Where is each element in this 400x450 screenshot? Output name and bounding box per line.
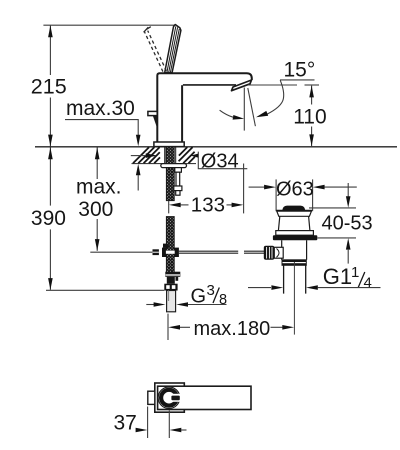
faucet body right edge under spout	[181, 85, 183, 142]
svg-text:G1: G1	[323, 264, 352, 289]
bottom view thick ring	[161, 390, 177, 406]
svg-text:300: 300	[78, 198, 113, 221]
aerator nozzle	[232, 80, 252, 91]
counter top line	[35, 146, 397, 148]
connection pipe G3/8	[167, 291, 176, 312]
counter bottom line	[132, 163, 197, 165]
bottom view spout rectangle	[158, 386, 251, 409]
mounting washer	[161, 164, 187, 168]
drain ledge	[276, 231, 314, 236]
dim 215 top reference line	[43, 24, 177, 26]
hose segment B upper	[166, 217, 174, 272]
dim 215 arrow up	[48, 25, 53, 37]
pop-up horizontal rod	[179, 251, 265, 253]
hose end fitting	[165, 272, 180, 277]
svg-text:110: 110	[293, 106, 326, 129]
dim max.300 arrow up	[95, 147, 100, 159]
dim max.30 lower shaft	[137, 175, 139, 191]
handle lever dashed alt position	[144, 31, 166, 72]
swing arc left arrowhead	[233, 115, 245, 120]
dim G3/8 left arrow	[146, 304, 154, 306]
drain rod connector	[274, 247, 283, 258]
spout underside	[183, 84, 236, 86]
drain tailpipe	[284, 265, 306, 293]
svg-text:1: 1	[351, 264, 359, 281]
dim O63 left arrow	[249, 186, 265, 188]
svg-text:215: 215	[31, 75, 67, 99]
15 deg underline	[280, 79, 315, 81]
bottom view body square	[155, 383, 185, 412]
dim max.30 arrow up (below counter)	[136, 164, 141, 175]
stream line vertical	[243, 88, 245, 131]
hose nut G3/8	[164, 284, 177, 291]
drain upper body	[278, 216, 310, 230]
dim max.30 underline + drop line	[65, 120, 138, 136]
dim O63 right arrow	[313, 185, 325, 190]
dim 390 arrow down	[48, 278, 53, 290]
drain coupling	[282, 260, 306, 266]
dome level reference line	[309, 207, 356, 209]
dim G1 1/4 right arrow + underline	[306, 285, 318, 290]
drain centerline	[293, 262, 295, 335]
dim 110 arrow down	[309, 134, 314, 146]
dim max.300 vertical line	[96, 147, 98, 250]
dim 215 arrow down	[48, 135, 53, 147]
svg-text:37: 37	[114, 412, 137, 435]
drain plug dome	[282, 206, 305, 210]
mounting bolt stud	[176, 172, 180, 186]
counter hatch left	[133, 147, 160, 163]
dim max.30 arrow down	[136, 135, 141, 146]
G3/8 underline	[188, 304, 227, 306]
pop-up rod left reference line	[90, 251, 153, 253]
dim 40-53 arrow up	[346, 238, 351, 250]
dim 390 arrow up	[48, 147, 53, 159]
pop-up rod slot through hose	[166, 251, 175, 254]
O34 left arrow	[131, 155, 147, 157]
stream line tilted	[248, 88, 256, 126]
drain lower body	[282, 240, 307, 260]
dim 40-53 top vertical	[347, 183, 349, 198]
bottom view outer circle	[158, 387, 180, 409]
dim 110 vertical line	[311, 86, 313, 147]
dim 110 top reference line	[305, 84, 320, 86]
mounting bolt nut	[174, 186, 182, 191]
flange level reference line	[318, 237, 357, 239]
svg-text:max.30: max.30	[66, 97, 135, 120]
pop-up knob on body	[148, 111, 157, 115]
bottom view left tab	[148, 391, 155, 404]
dim 37 left tick	[147, 407, 149, 439]
dim 133 right tick	[243, 164, 245, 214]
svg-text:8: 8	[219, 292, 227, 308]
O34 right arrow	[191, 154, 199, 158]
mounting bolt tail	[176, 191, 180, 196]
swing arc right	[266, 80, 284, 114]
shank knurl through counter	[166, 147, 174, 164]
dim 40-53 arrow down	[346, 196, 351, 208]
dim 40-53 bottom vertical	[347, 249, 349, 264]
dim 133 right arrow	[227, 204, 233, 206]
handle lever dashed cap	[144, 27, 151, 33]
svg-text:133: 133	[191, 194, 225, 217]
svg-text:max.180: max.180	[194, 318, 271, 340]
svg-text:Ø63: Ø63	[276, 178, 314, 200]
dim 390 bottom reference line	[46, 289, 164, 291]
mounting bolt top	[175, 168, 182, 173]
nozzle reference line	[248, 84, 297, 86]
dim 215 vertical line	[49, 26, 51, 147]
svg-text:390: 390	[31, 207, 66, 230]
handle lever solid	[165, 25, 181, 73]
dim 390 vertical line	[49, 147, 51, 289]
pop-up rod clamp	[162, 244, 179, 257]
pop-up knob wedge	[153, 116, 157, 129]
svg-text:Ø34: Ø34	[201, 151, 239, 173]
dim 37 right arrow	[170, 428, 182, 433]
dim max.300 arrow down	[95, 239, 100, 251]
svg-text:3: 3	[207, 282, 215, 299]
drain black flange	[273, 235, 317, 240]
dim G1 1/4 left arrow	[248, 287, 271, 289]
dim 133 left arrow	[169, 203, 181, 208]
pop-up rod left cap	[153, 249, 159, 255]
bottom view slot bar	[171, 396, 179, 401]
dim 133 left tick	[168, 201, 170, 214]
swing arc left	[220, 110, 233, 117]
faucet body and spout outline	[157, 73, 252, 142]
svg-text:40-53: 40-53	[322, 212, 373, 234]
dim 37 left arrow	[136, 428, 148, 433]
drain extension line left	[275, 179, 277, 211]
drain knob	[264, 246, 275, 260]
dim 37 center tick	[168, 411, 170, 439]
dim G3/8 right arrow	[176, 302, 188, 307]
dim max.180 left tick	[167, 314, 169, 340]
drain flange	[277, 211, 312, 216]
svg-text:15°: 15°	[284, 59, 316, 82]
handle lever inner contour lines	[167, 26, 179, 72]
svg-text:max.: max.	[76, 175, 122, 198]
counter hatch right	[179, 147, 195, 163]
faucet base plate	[154, 142, 184, 147]
bottom view slot	[171, 394, 182, 402]
hose segment A	[166, 168, 174, 201]
swing arc right arrowhead	[256, 111, 268, 117]
drain extension line right	[312, 179, 314, 211]
svg-text:4: 4	[364, 275, 372, 292]
dim 110 arrow up	[309, 86, 314, 98]
dim max.180 right arrow	[271, 326, 283, 328]
dim max.180 left arrow	[168, 325, 180, 330]
O34 bracket	[198, 152, 247, 169]
